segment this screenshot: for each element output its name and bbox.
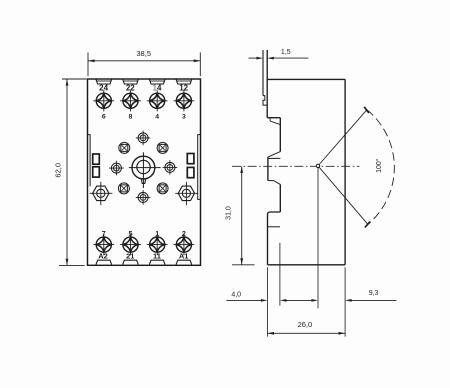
terminal screw 12 [174, 90, 195, 111]
svg-text:21: 21 [126, 252, 134, 261]
svg-text:7: 7 [102, 229, 106, 238]
svg-text:4: 4 [155, 113, 159, 120]
side view outline [263, 50, 345, 265]
foot internal line [268, 226, 281, 228]
angle ray lower [319, 167, 368, 224]
svg-text:A1: A1 [179, 252, 189, 261]
svg-text:1,5: 1,5 [281, 49, 291, 56]
shelf wedge [270, 118, 280, 125]
left side slot lower [93, 167, 100, 177]
svg-text:24: 24 [99, 84, 108, 93]
right side slot lower [187, 167, 194, 177]
left inner groove line [88, 135, 91, 187]
right mounting hole hex [175, 182, 198, 206]
bottom edge [268, 264, 346, 266]
dimension 31,0 [232, 166, 255, 264]
terminal screw 11 [147, 234, 168, 255]
socket pin SW [118, 183, 129, 194]
dimension 1,5 [249, 57, 309, 59]
top tab 4 inner line [177, 80, 191, 82]
terminal screw 22 [120, 90, 141, 111]
top tab 4 [176, 79, 192, 84]
bottom tab 2 [123, 260, 139, 264]
pocket top line [268, 157, 280, 159]
socket pin W [109, 161, 124, 176]
dimension 38,5 [88, 52, 200, 76]
top edge [267, 78, 345, 80]
svg-text:A2: A2 [98, 252, 108, 261]
dimension 4,0 and 9,3 [227, 299, 397, 301]
pocket bottom chamfer [268, 181, 280, 185]
rail wall left line [262, 50, 264, 96]
terminal screw 14 [147, 90, 168, 111]
arc tick lower [365, 222, 370, 228]
svg-text:8: 8 [129, 113, 133, 120]
svg-text:1: 1 [155, 229, 159, 238]
socket pin N [136, 131, 151, 146]
terminal screw 24 [93, 90, 114, 111]
bottom extension lines [267, 168, 345, 337]
rail wall clip steps [263, 96, 267, 106]
terminal screw A2 [93, 234, 114, 255]
centerline [232, 165, 360, 167]
svg-text:22: 22 [126, 84, 135, 93]
dimension 62,0 [59, 79, 87, 265]
svg-text:14: 14 [153, 84, 162, 93]
left edge upper [279, 118, 281, 152]
socket pin NE [157, 142, 168, 153]
svg-text:100°: 100° [375, 158, 383, 173]
left mounting hole hex [90, 182, 113, 206]
bottom foot [268, 212, 281, 265]
shelf step [267, 117, 280, 119]
rail wall right line [266, 50, 268, 118]
angle ray upper [319, 110, 367, 165]
socket pin SE [157, 183, 168, 194]
top tab 2 inner line [123, 80, 137, 82]
dimension 26,0 [267, 332, 345, 334]
arc tick upper [364, 107, 369, 113]
svg-text:38,5: 38,5 [136, 49, 151, 58]
socket pin NW [119, 142, 130, 153]
svg-text:2: 2 [182, 229, 186, 238]
front view body outline [88, 79, 201, 265]
left edge lower [279, 184, 281, 212]
labels front view [98, 84, 188, 261]
svg-text:4,0: 4,0 [231, 291, 241, 298]
pocket left edge [267, 157, 269, 181]
top tab 2 [123, 79, 139, 84]
bottom tab 3 [149, 260, 165, 264]
top tab 3 [149, 79, 165, 84]
top tab 3 inner line [150, 80, 164, 82]
terminal screw 21 [120, 234, 141, 255]
svg-text:9,3: 9,3 [369, 290, 379, 297]
pocket top chamfer [268, 152, 280, 158]
socket pin E [163, 160, 178, 175]
svg-text:6: 6 [102, 113, 106, 120]
right side slot upper [187, 154, 194, 164]
right edge [344, 79, 346, 264]
bottom tab 1 [96, 260, 112, 264]
svg-text:11: 11 [153, 252, 161, 261]
angle vertex [316, 164, 319, 167]
socket pin S [136, 190, 151, 205]
bottom tab 4 [176, 260, 192, 264]
top tab 1 [96, 79, 112, 84]
svg-text:62,0: 62,0 [53, 163, 62, 178]
left side slot upper [93, 154, 100, 164]
svg-text:3: 3 [182, 113, 186, 120]
svg-text:12: 12 [179, 84, 188, 93]
terminal screw A1 [174, 234, 195, 255]
right inner groove line [198, 135, 201, 200]
svg-text:5: 5 [129, 229, 133, 238]
top tab 1 inner line [97, 80, 111, 82]
center fixing screw [129, 152, 161, 188]
angle arc 100 deg [367, 110, 394, 225]
svg-text:26,0: 26,0 [298, 320, 313, 329]
svg-text:31,0: 31,0 [226, 206, 233, 220]
